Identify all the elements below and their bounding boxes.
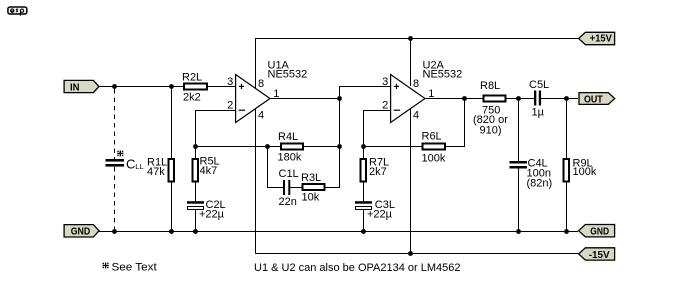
svg-text:C5L: C5L (529, 79, 549, 91)
svg-text:(82n): (82n) (527, 178, 553, 190)
svg-text:C1L: C1L (279, 168, 299, 180)
wire GND rail (99, 231, 578, 233)
wire link to U2A pin3 (340, 87, 392, 99)
capacitor C1L (279, 168, 303, 208)
resistor R3L (301, 99, 340, 204)
node C4L top (516, 96, 521, 101)
svg-text:2k2: 2k2 (183, 92, 201, 104)
tag OUT (579, 93, 615, 106)
capacitor C5L (529, 79, 578, 119)
svg-text:22n: 22n (279, 196, 297, 208)
svg-text:IN: IN (70, 81, 80, 93)
resistor R5L (193, 147, 220, 202)
wire dashed CLL upper (114, 89, 116, 159)
junction U2 pin8 to +15V (408, 36, 413, 41)
node CLL gnd (112, 229, 117, 234)
wire dashed CLL lower (114, 167, 116, 229)
svg-text:-15V: -15V (589, 249, 610, 261)
wire -15V rail (256, 253, 579, 255)
svg-text:R6L: R6L (422, 131, 442, 143)
label CLL (126, 157, 144, 172)
svg-text:910): 910) (480, 125, 502, 137)
wire R6L row (364, 146, 424, 148)
svg-text:2: 2 (382, 100, 388, 112)
svg-text:R8L: R8L (480, 80, 500, 92)
capacitor CLL (106, 159, 125, 167)
svg-text:4: 4 (258, 110, 264, 122)
asterisk see-text (103, 263, 109, 269)
op-amp U1A (227, 39, 307, 254)
node C1L branch (265, 144, 270, 149)
wire U2A output (425, 98, 484, 100)
node input junction (112, 84, 117, 89)
node R5L top (193, 144, 198, 149)
svg-text:LL: LL (135, 162, 143, 171)
resistor R9L (564, 99, 597, 232)
node R1L gnd (169, 229, 174, 234)
svg-text:See Text: See Text (112, 262, 157, 274)
svg-text:R3L: R3L (301, 172, 321, 184)
svg-text:2: 2 (227, 100, 233, 112)
op-amp U2A (382, 60, 462, 254)
svg-text:8: 8 (413, 78, 419, 90)
svg-text:47k: 47k (147, 166, 165, 178)
svg-text:U1 & U2 can also be OPA2134 or: U1 & U2 can also be OPA2134 or LM4562 (254, 262, 460, 274)
wire U1A output (270, 98, 340, 100)
svg-text:8: 8 (258, 78, 264, 90)
node R9L gnd (564, 229, 569, 234)
tag +15V (579, 32, 615, 44)
svg-text:+22µ: +22µ (367, 209, 393, 221)
tag IN (64, 80, 99, 93)
node R9L top (564, 96, 569, 101)
node C3L gnd (361, 229, 366, 234)
node feedback right (337, 144, 342, 149)
+15V rail (256, 39, 580, 86)
wire U2A pin8 (410, 39, 412, 87)
resistor R6L (422, 99, 465, 165)
svg-text:4: 4 (413, 110, 419, 122)
capacitor C3L (355, 199, 395, 231)
resistor R4L (278, 131, 340, 164)
svg-text:NE5532: NE5532 (423, 69, 463, 81)
resistor R7L (361, 147, 390, 202)
svg-text:GND: GND (590, 226, 609, 238)
esp logo (8, 7, 27, 16)
svg-text:2k7: 2k7 (369, 166, 387, 178)
svg-text:NE5532: NE5532 (268, 69, 308, 81)
capacitor C4L (510, 99, 553, 232)
svg-text:GND: GND (71, 225, 91, 237)
node C2L gnd (193, 229, 198, 234)
resistor R1L (147, 87, 174, 232)
svg-text:4k7: 4k7 (200, 165, 218, 177)
wire U2A pin2 (364, 111, 392, 147)
tag GND right (579, 225, 615, 238)
wire C1L branch (268, 147, 284, 188)
svg-text:180k: 180k (278, 152, 302, 164)
svg-text:3: 3 (382, 76, 388, 88)
svg-text:100k: 100k (422, 153, 446, 165)
resistor R8L (473, 80, 534, 137)
svg-text:10k: 10k (302, 192, 320, 204)
svg-text:100k: 100k (573, 166, 597, 178)
svg-text:OUT: OUT (584, 93, 603, 105)
node R7L top (361, 144, 366, 149)
svg-text:3: 3 (227, 76, 233, 88)
asterisk near CLL (117, 150, 123, 156)
tag -15V (579, 248, 615, 261)
svg-text:R2L: R2L (182, 72, 202, 84)
capacitor C2L (187, 199, 226, 231)
node U2A output junction (462, 96, 467, 101)
svg-text:1µ: 1µ (532, 107, 545, 119)
node U2A pin4 to -15V (408, 251, 413, 256)
svg-text:R4L: R4L (278, 131, 298, 143)
node U1A output junction (337, 96, 342, 101)
svg-text:+15V: +15V (590, 33, 612, 45)
node R1L top (169, 84, 174, 89)
resistor R2L (182, 72, 236, 104)
wire U1A pin2 (196, 111, 237, 147)
tag GND left (64, 225, 99, 238)
svg-text:+22µ: +22µ (199, 209, 225, 221)
wire R4L row (196, 146, 282, 148)
svg-text:C: C (126, 157, 135, 172)
wire IN row (99, 86, 184, 88)
node C4L gnd (516, 229, 521, 234)
